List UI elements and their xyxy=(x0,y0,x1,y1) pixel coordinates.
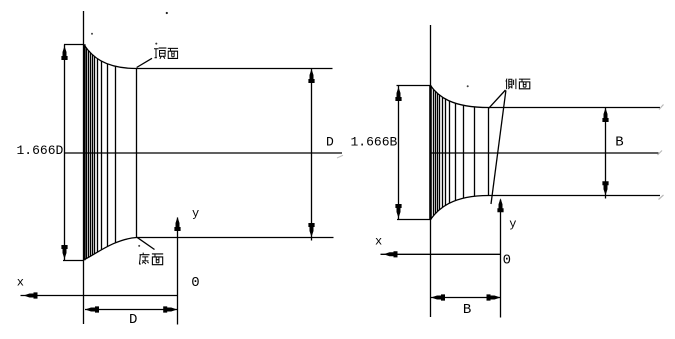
svg-text:1.666B: 1.666B xyxy=(351,135,398,150)
svg-text:0: 0 xyxy=(191,275,199,291)
label dimian (bottom face) xyxy=(139,253,150,264)
flare throat edge xyxy=(488,108,490,196)
y axis xyxy=(500,200,502,318)
centerline xyxy=(430,152,659,154)
dim extension line bottom (1.666D) xyxy=(63,260,84,262)
speck dots xyxy=(166,12,168,14)
speck dot xyxy=(467,85,469,87)
faint line-end marks xyxy=(658,105,664,200)
dim extension line top (1.666D) xyxy=(64,44,84,46)
y axis xyxy=(177,218,179,325)
leader to bottom face label xyxy=(137,237,155,249)
svg-text:y: y xyxy=(192,207,199,221)
svg-text:B: B xyxy=(615,134,623,150)
dim line 1.666B xyxy=(398,86,400,220)
pipe top line xyxy=(137,68,333,70)
flare bottom curve xyxy=(431,196,489,220)
x axis xyxy=(381,253,501,255)
construction vertical line through flare mouth xyxy=(83,11,85,324)
surface rib lines xyxy=(434,89,475,215)
svg-text:x: x xyxy=(17,276,24,290)
centerline xyxy=(64,152,342,154)
svg-text:x: x xyxy=(375,235,382,249)
leader to side face label (long) xyxy=(491,90,506,204)
flare top curve (bell profile) xyxy=(84,45,137,69)
dim line 1.666D xyxy=(64,45,66,261)
pipe bottom line xyxy=(137,237,334,239)
label dingmian (top face) xyxy=(154,48,166,59)
flare mouth thick edge xyxy=(429,86,432,220)
flare throat edge xyxy=(136,69,138,238)
leader to side face label (short) xyxy=(489,90,506,108)
flare mouth thick edge xyxy=(83,44,86,260)
svg-text:y: y xyxy=(509,217,516,231)
pipe bottom line xyxy=(489,195,661,197)
svg-text:1.666D: 1.666D xyxy=(17,143,64,158)
flare top curve xyxy=(431,86,489,108)
dim extension line top (1.666B) xyxy=(397,85,431,87)
svg-text:0: 0 xyxy=(503,253,511,269)
flare bottom curve (bell profile) xyxy=(84,238,137,260)
svg-text:B: B xyxy=(463,302,471,318)
dim line D bottom xyxy=(85,309,177,311)
leader to top face label xyxy=(137,58,152,67)
x axis xyxy=(21,295,178,297)
pipe top line xyxy=(489,107,661,109)
dim line B vertical xyxy=(605,108,607,199)
surface rib lines xyxy=(87,48,116,258)
svg-text:D: D xyxy=(129,312,137,328)
construction vertical line through flare mouth xyxy=(430,25,432,317)
svg-text:D: D xyxy=(326,135,334,150)
label cemian (side face) xyxy=(506,79,516,90)
dim line D vertical xyxy=(311,69,313,241)
dim line B bottom xyxy=(431,297,501,299)
dim extension line bottom (1.666B) xyxy=(397,219,431,221)
